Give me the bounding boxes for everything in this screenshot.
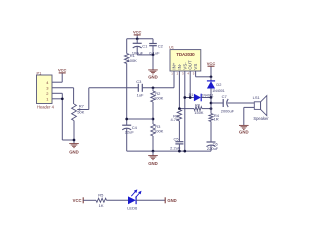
svg-text:LS1: LS1 (253, 95, 261, 100)
svg-text:220uF: 220uF (207, 146, 219, 151)
svg-text:C1: C1 (142, 43, 148, 48)
svg-text:VCC: VCC (73, 198, 82, 203)
svg-text:TDA2030: TDA2030 (176, 52, 195, 57)
svg-text:1N4001: 1N4001 (212, 89, 225, 93)
svg-text:4: 4 (187, 72, 189, 76)
junction: pot gnd (73, 139, 76, 142)
junction: C5 at rail (178, 150, 181, 153)
wire: supply lower rail (137, 54, 153, 56)
resistor R2 (151, 91, 164, 102)
svg-text:R7: R7 (79, 104, 85, 109)
junction: OUT at D1 line (189, 96, 192, 99)
capacitor C1 (132, 39, 148, 56)
wire: R1 bottom to node B (126, 64, 128, 126)
wire: output to C7 (211, 102, 223, 104)
wire: VCC to R8 (83, 199, 96, 201)
junction: rail at R3 (152, 150, 155, 153)
pin 1 IN+ stub (173, 71, 175, 88)
capacitor C6 (207, 141, 219, 151)
resistor R3 (151, 124, 164, 136)
junction: feedback at output column (210, 107, 213, 110)
svg-text:U1: U1 (169, 45, 175, 50)
resistor R1 (125, 53, 138, 63)
junction: VS- at rail (183, 150, 186, 153)
wire: R4 to C6 (210, 122, 212, 143)
svg-text:Header 4: Header 4 (37, 104, 55, 109)
capacitor C5 (170, 136, 183, 151)
LED LED6 (127, 189, 141, 210)
wire: R6 to C5 (178, 121, 180, 142)
junction: node B at R2/R3 (152, 118, 155, 121)
wire: speaker return (244, 107, 255, 125)
svg-text:4.7K: 4.7K (170, 117, 179, 122)
svg-text:GND: GND (148, 161, 158, 166)
svg-text:100K: 100K (128, 58, 138, 63)
svg-text:100K: 100K (154, 129, 164, 134)
svg-text:100K: 100K (154, 95, 164, 100)
resistor R8 (feedback) (194, 102, 204, 114)
wire: input node A (89, 87, 174, 89)
svg-text:150K: 150K (194, 110, 203, 115)
svg-text:C5: C5 (173, 136, 179, 141)
op-amp U1 TDA2030 (169, 45, 201, 76)
svg-text:R5: R5 (98, 192, 104, 197)
ground GND (speaker) (239, 125, 249, 134)
wire: R1 top lead (126, 39, 128, 54)
svg-text:VS-: VS- (182, 62, 187, 70)
svg-text:2: 2 (177, 72, 179, 76)
svg-text:C2: C2 (158, 43, 164, 48)
svg-text:Speaker: Speaker (253, 116, 269, 121)
power VCC (LED) (73, 197, 84, 203)
capacitor C4 (122, 125, 137, 151)
junction: VS+ / VCC / D2 (210, 75, 213, 78)
capacitor C3 (136, 79, 144, 98)
wire: output column to R4 (210, 98, 212, 114)
wire: header pin3 to pot (52, 88, 74, 104)
ground GND (pot) (69, 144, 79, 155)
wire: C7 to speaker (228, 102, 255, 104)
pin 4 OUT stub (189, 71, 191, 98)
svg-text:D2: D2 (216, 82, 221, 87)
svg-text:1K: 1K (99, 203, 104, 208)
wire: pot bottom to gnd (73, 121, 75, 144)
ground GND (mid rail) (148, 156, 158, 166)
ground GND (supply) (148, 70, 158, 80)
svg-text:VCC: VCC (133, 30, 142, 35)
junction: R2 top on node A (152, 86, 155, 89)
svg-text:C7: C7 (222, 94, 228, 99)
resistor R6 (170, 110, 181, 122)
svg-text:50K: 50K (77, 109, 84, 114)
power GND (LED) (165, 197, 177, 203)
svg-text:VCC: VCC (207, 61, 216, 66)
connector P1 Header 4 (37, 70, 55, 109)
svg-text:D1: D1 (189, 93, 194, 97)
power VCC (supply) (133, 30, 142, 39)
svg-text:1uF: 1uF (137, 93, 144, 98)
svg-text:IN+: IN+ (172, 62, 177, 69)
svg-text:LED6: LED6 (127, 205, 138, 210)
wire: R3 bottom lead (152, 136, 154, 151)
wire: R8 to LED (107, 199, 129, 201)
capacitor C7 (221, 94, 235, 113)
wire: gnd1 stem (152, 55, 154, 70)
junction: VCC rail (136, 37, 139, 40)
junction: pin1/pin2 gnd (61, 97, 64, 100)
resistor R4 (209, 113, 220, 122)
svg-text:IN-: IN- (177, 63, 182, 69)
wire: top supply rail (127, 38, 153, 40)
svg-text:GND: GND (69, 150, 79, 155)
svg-text:OUT: OUT (188, 60, 193, 70)
wire: header pin4 to VCC stub (52, 81, 62, 83)
pin 5 VS+ stub (196, 71, 211, 77)
wire: header pin1 (52, 98, 62, 100)
svg-text:2.2uF: 2.2uF (170, 145, 181, 150)
svg-text:VCC: VCC (58, 67, 67, 72)
svg-text:VS: VS (193, 64, 198, 70)
svg-text:5: 5 (193, 72, 195, 76)
svg-text:1: 1 (171, 72, 173, 76)
svg-text:P1: P1 (37, 70, 43, 75)
power VCC (output) (207, 61, 216, 77)
diode D2 1N4001 (207, 77, 225, 98)
diode D1 1N4001 (189, 93, 214, 101)
speaker LS1 (253, 95, 270, 121)
capacitor C2 (149, 39, 163, 56)
wire: pot wiper riser (88, 88, 90, 110)
wire: R2 bottom to R3 top (152, 102, 154, 124)
pin 2 IN- stub (178, 71, 180, 110)
resistor R5 (LED) (96, 192, 107, 208)
junction: VS- at D1 (183, 96, 186, 99)
wire: D1 line left (185, 97, 194, 99)
wire: node B link (127, 118, 153, 120)
wire: gnd3 stem (152, 151, 154, 156)
wire: LED to GND (136, 199, 165, 201)
svg-text:1R: 1R (214, 117, 219, 122)
svg-text:C3: C3 (136, 79, 142, 84)
wire: header pin2 (52, 92, 62, 94)
junction: node B at C4 (125, 118, 128, 121)
wire: R2 top lead (152, 88, 154, 91)
pin 3 VS- stub (184, 71, 186, 151)
svg-text:2000uF: 2000uF (221, 109, 235, 114)
power VCC (header) (58, 67, 67, 82)
wire: bottom ground rail (127, 150, 211, 152)
svg-text:3: 3 (182, 72, 184, 76)
wire: header ground run (62, 93, 74, 140)
svg-text:GND: GND (167, 198, 176, 203)
svg-text:R8: R8 (195, 102, 200, 107)
potentiometer R7 (72, 104, 89, 121)
junction: IN- node (178, 107, 181, 110)
junction: C2 gnd rail (152, 54, 155, 57)
junction: output at C7 line (210, 102, 213, 105)
svg-text:GND: GND (148, 74, 158, 79)
wire: IN- feedback line (179, 108, 211, 110)
svg-text:GND: GND (239, 129, 249, 134)
svg-text:22uF: 22uF (125, 129, 135, 134)
junction: output node at D-line (210, 96, 213, 99)
